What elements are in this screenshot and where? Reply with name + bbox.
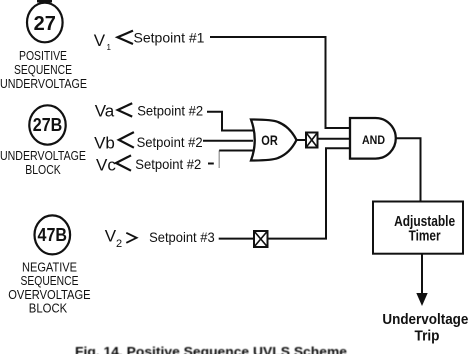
svg-text:POSITIVE: POSITIVE — [19, 49, 67, 63]
svg-text:BLOCK: BLOCK — [29, 302, 68, 316]
arrowhead — [416, 293, 427, 306]
svg-text:OVERVOLTAGE: OVERVOLTAGE — [8, 288, 90, 302]
node V1 label — [94, 31, 112, 52]
comparator symbol > (setpoint 3) — [126, 233, 136, 243]
relay element 47B (negative sequence overvoltage block) — [35, 215, 71, 254]
wire: test switch X1 to AND middle input — [318, 138, 351, 140]
comparator symbol < (setpoint 1) — [118, 31, 134, 44]
comparator symbol < (Va) — [118, 103, 133, 116]
wire: setpoint3 to test switch X2 — [219, 238, 254, 240]
faint wire: Vc riser — [218, 151, 220, 169]
label POSITIVE SEQUENCE UNDERVOLTAGE — [0, 49, 87, 91]
label NEGATIVE SEQUENCE OVERVOLTAGE BLOCK — [8, 261, 90, 316]
adjustable timer block — [373, 202, 463, 254]
svg-text:Timer: Timer — [409, 228, 441, 245]
svg-text:Trip: Trip — [415, 327, 440, 344]
test switch X1 (crossed box) — [306, 133, 318, 148]
svg-text:NEGATIVE: NEGATIVE — [22, 261, 77, 275]
wire: OR output to test switch — [297, 139, 307, 141]
svg-text:Undervoltage: Undervoltage — [382, 311, 468, 328]
svg-text:Vc: Vc — [96, 156, 116, 175]
svg-text:1: 1 — [107, 43, 112, 52]
svg-text:27: 27 — [34, 13, 56, 35]
AND gate U2 — [350, 118, 396, 159]
svg-text:SEQUENCE: SEQUENCE — [21, 274, 79, 288]
svg-text:2: 2 — [116, 238, 122, 250]
svg-text:OR: OR — [261, 132, 278, 148]
cropped black mark above circle 27 — [37, 0, 52, 3]
wire stub from Vc — [208, 163, 214, 165]
wire: setpoint1 to AND top input — [210, 37, 350, 128]
svg-text:Setpoint #2: Setpoint #2 — [137, 103, 203, 119]
svg-text:UNDERVOLTAGE: UNDERVOLTAGE — [0, 77, 87, 91]
wire: into OR bottom input — [219, 150, 258, 152]
svg-text:Setpoint #2: Setpoint #2 — [135, 156, 201, 172]
wire: AND output to timer — [396, 138, 421, 201]
svg-text:Setpoint #1: Setpoint #1 — [134, 30, 205, 46]
relay element 27 (positive sequence undervoltage) — [27, 3, 63, 43]
svg-text:Vb: Vb — [94, 134, 115, 153]
comparator symbol < (Vb) — [119, 132, 134, 148]
svg-text:Setpoint #3: Setpoint #3 — [149, 229, 215, 245]
svg-text:Setpoint #2: Setpoint #2 — [137, 134, 203, 150]
comparator symbol < (Vc) — [116, 155, 131, 170]
svg-text:Va: Va — [95, 101, 115, 120]
wire: Vb to OR middle input — [203, 140, 253, 142]
node V2 label — [105, 226, 122, 250]
label UNDERVOLTAGE BLOCK — [0, 149, 86, 177]
svg-text:V: V — [105, 226, 117, 245]
svg-text:V: V — [94, 31, 106, 50]
svg-text:AND: AND — [362, 135, 385, 147]
relay element 27B (undervoltage block) — [29, 105, 65, 144]
wire: timer output — [421, 254, 423, 294]
label Undervoltage Trip — [382, 311, 468, 344]
svg-text:47B: 47B — [38, 225, 68, 245]
OR gate U1 — [251, 120, 297, 161]
test switch X2 (crossed box) — [254, 231, 268, 247]
svg-text:BLOCK: BLOCK — [25, 163, 61, 177]
wire: Va to OR top input — [207, 112, 258, 131]
svg-text:Fig. 14. Positive Sequence UVL: Fig. 14. Positive Sequence UVLS Scheme — [75, 344, 347, 354]
svg-text:27B: 27B — [33, 115, 63, 135]
wire: test switch X2 up to AND bottom input — [268, 148, 351, 238]
svg-text:SEQUENCE: SEQUENCE — [14, 63, 72, 77]
svg-text:UNDERVOLTAGE: UNDERVOLTAGE — [0, 149, 86, 163]
